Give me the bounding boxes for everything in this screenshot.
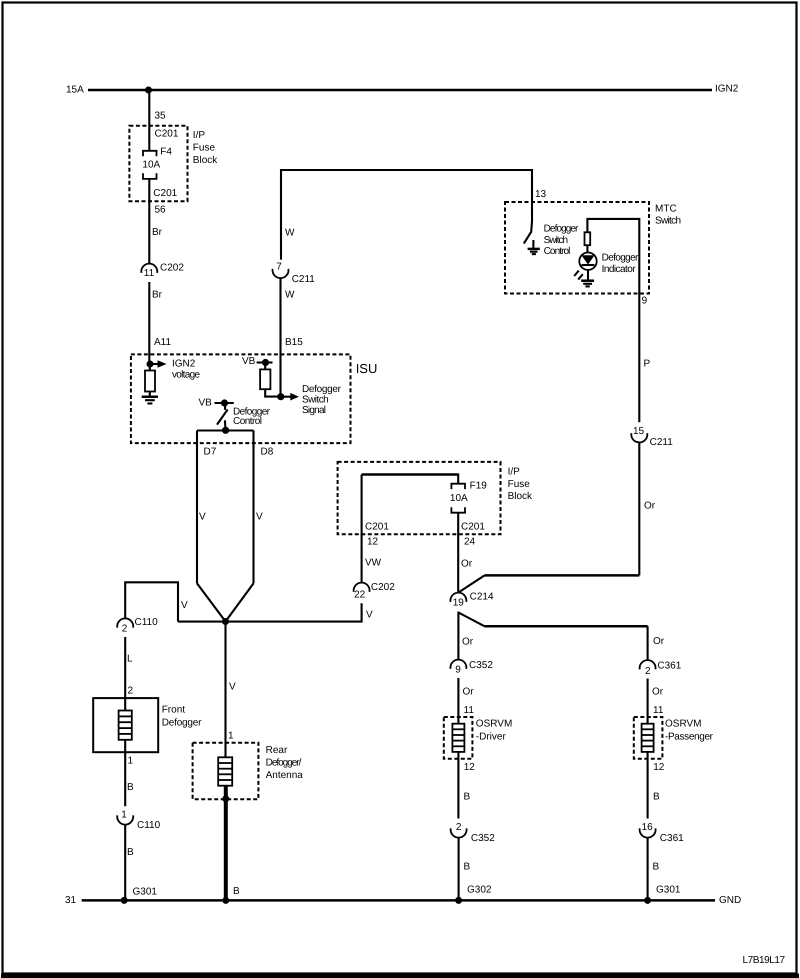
wire C361-16 to ground (B) [647, 838, 649, 901]
svg-text:12: 12 [464, 762, 476, 773]
svg-text:2: 2 [456, 822, 462, 833]
svg-text:Defogger: Defogger [162, 718, 202, 729]
svg-text:L7B19L17: L7B19L17 [743, 955, 786, 966]
svg-text:Rear: Rear [266, 745, 288, 756]
svg-text:Defogger: Defogger [544, 224, 579, 235]
svg-text:-Driver: -Driver [476, 732, 507, 743]
svg-text:Or: Or [652, 687, 664, 698]
svg-text:VB: VB [242, 356, 256, 367]
front defogger heater element [119, 711, 132, 740]
svg-text:Switch: Switch [544, 235, 568, 246]
wire D8 down (V) [252, 431, 254, 584]
svg-text:Switch: Switch [302, 395, 329, 406]
svg-text:V: V [229, 682, 236, 693]
svg-text:1: 1 [228, 731, 234, 742]
svg-text:31: 31 [65, 895, 77, 906]
svg-text:15: 15 [633, 426, 645, 437]
svg-text:Or: Or [653, 636, 665, 647]
svg-text:2: 2 [645, 666, 651, 677]
svg-text:F19: F19 [470, 481, 488, 492]
svg-text:22: 22 [354, 589, 366, 600]
svg-text:voltage: voltage [172, 370, 200, 381]
I/P fuse block 2 box [338, 462, 501, 534]
svg-text:C214: C214 [470, 592, 494, 603]
switch defogger switch control [524, 221, 532, 243]
connector C202 pin 11 [141, 264, 157, 273]
wire D7/D8 bar [197, 429, 254, 431]
ground ISU [149, 392, 151, 397]
svg-text:B: B [464, 862, 471, 873]
svg-text:L: L [127, 654, 133, 665]
svg-text:VB: VB [199, 398, 213, 409]
svg-text:W: W [285, 228, 295, 239]
svg-text:OSRVM: OSRVM [665, 719, 702, 730]
svg-text:OSRVM: OSRVM [476, 719, 513, 730]
svg-text:W: W [285, 290, 295, 301]
wire C211-15 down (Or) [638, 443, 640, 576]
svg-text:V: V [256, 512, 263, 523]
svg-text:B: B [464, 792, 471, 803]
svg-text:C361: C361 [657, 661, 681, 672]
svg-text:C352: C352 [469, 660, 493, 671]
svg-text:V: V [366, 610, 373, 621]
svg-text:Or: Or [461, 559, 473, 570]
svg-text:C352: C352 [471, 833, 495, 844]
svg-text:A11: A11 [154, 337, 171, 348]
svg-text:GND: GND [719, 895, 741, 906]
svg-text:1: 1 [121, 810, 127, 821]
svg-text:B: B [127, 782, 134, 793]
resistor ISU A11 [149, 364, 151, 371]
svg-text:Indicator: Indicator [602, 264, 637, 275]
resistor in MTC [585, 232, 591, 245]
svg-text:C110: C110 [135, 617, 159, 628]
svg-text:C201: C201 [153, 188, 177, 199]
wire C110-1 to ground (B) [124, 825, 126, 901]
svg-text:2: 2 [122, 623, 128, 634]
svg-text:7: 7 [276, 262, 282, 273]
wire element to C352-2 (B) [457, 752, 459, 819]
svg-text:Fuse: Fuse [508, 479, 531, 490]
wire C211 to ISU B15 (W) [279, 278, 281, 396]
ground under LED [581, 279, 594, 282]
svg-text:MTC: MTC [655, 204, 677, 215]
wire OSRVM passenger drop (Or) [647, 679, 649, 724]
wire fuse to C202 (Br) [148, 179, 150, 264]
svg-text:IGN2: IGN2 [715, 84, 739, 95]
arrow IGN2 voltage [150, 363, 158, 365]
svg-text:C361: C361 [660, 833, 684, 844]
svg-text:-Passenger: -Passenger [665, 732, 714, 743]
wire LED branch [587, 219, 639, 294]
svg-text:D8: D8 [261, 447, 274, 458]
svg-text:IGN2: IGN2 [172, 358, 196, 369]
connector C361 pin 2 [640, 660, 656, 669]
wire funnel diagonals [197, 583, 226, 621]
wire OSRVM driver drop (Or) [457, 678, 459, 724]
svg-text:P: P [644, 359, 651, 370]
node junction on rail [145, 87, 152, 94]
svg-text:13: 13 [535, 189, 547, 200]
ISU box [131, 354, 351, 443]
connector C202 pin 22 [354, 583, 370, 592]
svg-text:11: 11 [464, 705, 475, 716]
svg-text:I/P: I/P [193, 130, 206, 141]
svg-text:Control: Control [233, 416, 262, 427]
svg-text:VW: VW [365, 558, 382, 569]
svg-text:B: B [653, 862, 660, 873]
rear defogger heater element [218, 757, 232, 785]
svg-text:Switch: Switch [655, 216, 681, 227]
wire element to C110-1 (B) [124, 740, 126, 806]
svg-text:V: V [199, 512, 206, 523]
svg-text:B: B [127, 847, 134, 858]
wire MTC branch to C214 [485, 574, 640, 577]
svg-text:Br: Br [152, 227, 163, 238]
wire branch to passenger [458, 613, 484, 627]
svg-text:12: 12 [653, 762, 665, 773]
svg-text:19: 19 [453, 598, 465, 609]
svg-text:G301: G301 [133, 887, 158, 898]
wire W horizontal top [281, 170, 532, 260]
wire rear defogger drop (V) [224, 622, 226, 758]
svg-text:Or: Or [463, 687, 475, 698]
svg-text:Block: Block [508, 491, 533, 502]
svg-text:V: V [181, 600, 188, 611]
svg-text:9: 9 [455, 665, 461, 676]
wire rear defogger ground strap (B) [224, 786, 228, 901]
wire ground rail [82, 899, 715, 902]
svg-text:Or: Or [462, 637, 474, 648]
svg-text:B15: B15 [285, 337, 303, 348]
svg-text:1: 1 [128, 756, 134, 767]
svg-text:C201: C201 [155, 129, 179, 140]
svg-text:9: 9 [642, 296, 648, 307]
svg-text:Defogger/: Defogger/ [266, 758, 302, 769]
LED defogger indicator [579, 253, 596, 270]
wire MTC pin9 down (P) [638, 294, 640, 423]
wire F19 down Or [457, 513, 459, 593]
node ground junction G301 left [121, 897, 128, 904]
svg-text:15A: 15A [66, 85, 84, 96]
node defogger control junction [222, 427, 229, 434]
svg-text:C202: C202 [160, 263, 184, 274]
node B15 junction [277, 393, 284, 400]
svg-text:F4: F4 [160, 147, 172, 158]
svg-text:24: 24 [464, 537, 476, 548]
connector C214 pin 19 [450, 593, 466, 602]
svg-text:12: 12 [367, 537, 379, 548]
svg-text:C201: C201 [461, 522, 485, 533]
node A11 junction [147, 361, 154, 368]
wire C202-22 to node (V) [178, 603, 362, 621]
wire top rail [88, 89, 712, 92]
svg-text:D7: D7 [204, 447, 217, 458]
svg-text:2: 2 [128, 686, 134, 697]
svg-text:11: 11 [144, 268, 155, 279]
node ground junction G302 [455, 897, 462, 904]
rear defogger box [193, 743, 259, 800]
fuse F4 10A [143, 151, 157, 157]
OSRVM passenger box [634, 717, 663, 759]
svg-text:Control: Control [544, 246, 571, 257]
svg-text:10A: 10A [450, 493, 468, 504]
svg-text:C211: C211 [292, 274, 316, 285]
svg-text:Antenna: Antenna [266, 770, 304, 781]
wire element to C361-16 (B) [647, 752, 649, 819]
svg-text:G301: G301 [656, 885, 681, 896]
svg-text:11: 11 [653, 705, 664, 716]
front defogger box [93, 698, 158, 752]
connector C352 pin 9 [450, 660, 466, 669]
svg-text:35: 35 [155, 111, 167, 122]
svg-text:G302: G302 [467, 885, 492, 896]
wire C214 down (Or) with branch [457, 612, 459, 660]
svg-text:Br: Br [152, 290, 163, 301]
svg-text:Block: Block [193, 155, 218, 166]
fuse F19 10A [451, 484, 465, 489]
svg-text:C110: C110 [137, 820, 161, 831]
svg-text:B: B [653, 792, 660, 803]
wire C352-2 to ground (B) [458, 838, 460, 901]
svg-text:10A: 10A [142, 160, 160, 171]
svg-text:Front: Front [162, 705, 186, 716]
wire D7 down (V) [196, 431, 198, 584]
svg-text:B: B [233, 886, 240, 897]
node funnel junction [222, 618, 229, 625]
wire C110-2 to front defogger (L) [124, 637, 126, 711]
svg-text:56: 56 [155, 205, 167, 216]
I/P fuse block 1 box [129, 126, 187, 201]
switch defogger control [223, 403, 226, 410]
svg-text:C211: C211 [650, 437, 674, 448]
light arrows [574, 271, 579, 276]
ground in MTC switch [528, 248, 540, 251]
MTC Switch box [505, 202, 649, 294]
svg-text:Or: Or [644, 501, 656, 512]
svg-text:16: 16 [642, 822, 654, 833]
svg-text:I/P: I/P [508, 467, 521, 478]
wire jog to C110 (V) [125, 582, 178, 621]
OSRVM driver heater element [452, 724, 464, 752]
svg-text:C201: C201 [365, 522, 389, 533]
svg-text:C202: C202 [371, 582, 395, 593]
wire C202 to ISU A11 (Br) [148, 282, 150, 364]
node rear defogger ground [222, 795, 229, 802]
OSRVM passenger heater element [642, 724, 654, 752]
OSRVM driver box [444, 717, 473, 759]
svg-text:Defogger: Defogger [602, 253, 639, 264]
resistor ISU B15 [264, 363, 266, 370]
connector C110 pin 2 [117, 618, 133, 627]
node ground junction rear defogger [222, 897, 229, 904]
wire inside fuse block 2 [362, 473, 459, 476]
svg-text:ISU: ISU [356, 361, 378, 376]
node ground junction G301 right [644, 897, 651, 904]
wire rail to fuse F4 [148, 90, 150, 151]
svg-text:Signal: Signal [302, 405, 326, 416]
svg-text:Fuse: Fuse [193, 143, 216, 154]
arrow defogger switch signal [281, 396, 291, 398]
